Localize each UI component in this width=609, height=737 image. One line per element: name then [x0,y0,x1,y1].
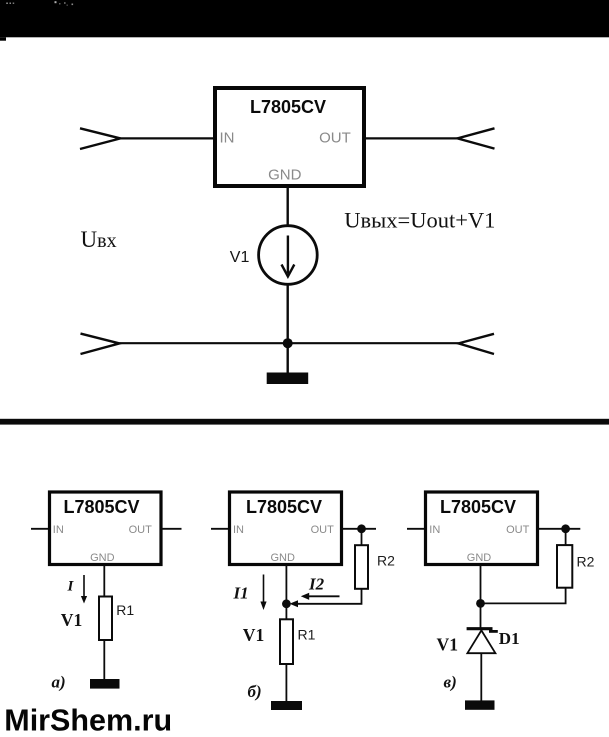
top black banner [0,0,609,41]
wire: GND down to D1 (в) [480,565,482,629]
wire: D1 to ground (в) [480,653,482,701]
junction node (bus / ground) [283,338,293,348]
bus right arrow [459,334,495,354]
resistor R2 (б) [355,545,368,589]
svg-text:IN: IN [53,524,64,536]
wire: node down to R2 (б) [361,529,363,546]
wire: GND pin down to V1 [287,186,289,227]
section divider [0,419,609,425]
svg-text:Uвых=Uout+V1: Uвых=Uout+V1 [344,208,495,233]
resistor R1 (б) [280,619,293,664]
svg-text:R2: R2 [577,553,595,569]
wire: V1 to ground bus [287,284,289,344]
ground symbol (a) [90,679,120,689]
svg-text:D1: D1 [499,629,520,648]
wire: input stub (в) [407,528,426,530]
svg-text:MirShem.ru: MirShem.ru [4,703,172,737]
wire: GND down to R1 (б) [285,565,287,620]
wire: input to IN pin [120,137,215,139]
regulator U2 L7805CV (box a) [50,492,162,565]
svg-text:I: I [67,579,75,595]
regulator U1 L7805CV (box) [215,88,364,186]
svg-text:L7805CV: L7805CV [63,497,139,517]
current arrow I (a) [81,575,87,604]
svg-text:IN: IN [429,524,440,536]
wire: input stub (б) [211,528,230,530]
wire: output stub (a) [162,528,182,530]
svg-text:GND: GND [270,552,295,564]
wire: OUT stub (в) [538,528,581,530]
svg-text:GND: GND [268,167,302,184]
junction node on GND wire (в) [476,599,485,608]
wire: OUT pin to output [364,137,458,139]
svg-text:L7805CV: L7805CV [250,97,326,117]
svg-text:I1: I1 [233,584,249,603]
current arrow I2 (б) [301,593,340,600]
svg-text:а): а) [52,672,66,691]
wire: R2 down then left to junction (в) [481,588,566,604]
junction node at OUT (б) [357,524,366,533]
svg-text:OUT: OUT [129,524,153,536]
current source V1 (circle with down arrow) [259,226,318,285]
regulator U3 L7805CV (box б) [230,492,342,565]
svg-text:в): в) [444,673,457,692]
svg-text:OUT: OUT [506,524,530,536]
svg-text:OUT: OUT [319,130,351,147]
ground symbol (б) [271,701,302,710]
svg-text:L7805CV: L7805CV [246,497,322,517]
arrowhead into junction (б) [290,600,299,607]
svg-text:IN: IN [220,130,235,147]
ground symbol (top circuit) [267,373,309,385]
svg-text:R2: R2 [377,553,395,569]
resistor R2 (в) [557,545,572,588]
input arrow (left chevron) [80,128,121,149]
svg-text:OUT: OUT [311,524,335,536]
resistor R1 (a) [99,597,112,641]
wire: input stub (a) [31,528,49,530]
wire: GND down to R1 (a) [103,565,105,597]
svg-text:I2: I2 [308,574,325,593]
wire: R2 down then left to junction (б) [294,589,362,604]
svg-text:GND: GND [467,552,492,564]
wire: R1 to ground (б) [285,664,287,702]
current arrow I1 (б) [260,575,266,611]
svg-text:V1: V1 [437,634,459,654]
svg-text:Uвх: Uвх [81,227,117,252]
bus left arrow [81,334,120,354]
wire: OUT stub (б) [342,528,377,530]
svg-text:L7805CV: L7805CV [440,497,516,517]
output arrow (right chevron) [458,128,495,148]
junction node on GND wire (б) [282,599,291,608]
svg-text:V1: V1 [61,610,83,630]
svg-text:IN: IN [233,524,244,536]
svg-text:V1: V1 [230,249,250,266]
ground symbol (в) [465,700,495,709]
wire: R1 to ground (a) [103,640,105,680]
wire: node down to R2 (в) [565,529,567,546]
zener diode D1 (в) [467,629,498,654]
regulator U4 L7805CV (box в) [426,492,538,565]
ground bus wire [120,342,459,344]
svg-text:R1: R1 [116,602,134,618]
svg-text:V1: V1 [243,625,265,645]
junction node at OUT (в) [561,524,570,533]
svg-text:б): б) [248,682,262,701]
svg-text:R1: R1 [298,627,316,643]
wire: junction to ground [287,343,289,373]
svg-text:GND: GND [90,552,115,564]
